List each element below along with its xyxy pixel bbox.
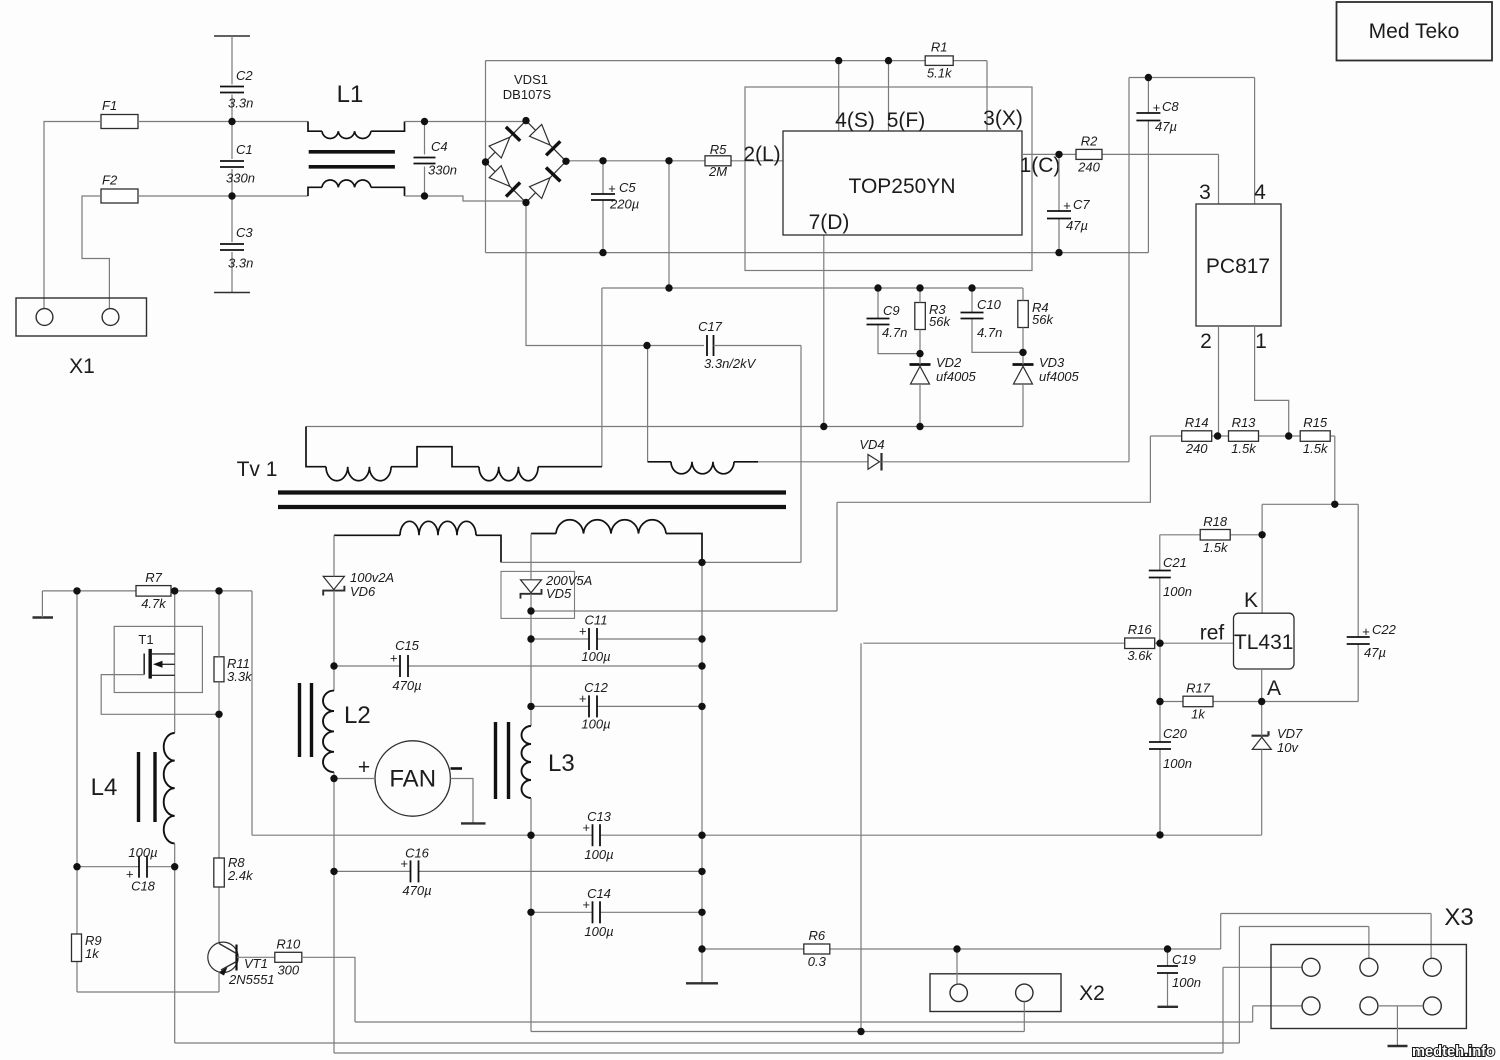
svg-text:L2: L2 xyxy=(344,702,371,729)
svg-text:7(D): 7(D) xyxy=(809,211,850,234)
svg-text:C2: C2 xyxy=(236,68,253,83)
svg-text:L4: L4 xyxy=(91,774,118,801)
wire xyxy=(334,772,1223,1053)
wire X2 pin left xyxy=(956,949,958,984)
capacitor C1 xyxy=(220,142,255,186)
wire xyxy=(1159,643,1161,701)
wire xyxy=(531,705,702,707)
svg-text:470µ: 470µ xyxy=(402,883,431,898)
resistor R7 xyxy=(136,570,171,611)
svg-text:3.3n: 3.3n xyxy=(228,96,253,111)
svg-text:ref: ref xyxy=(1200,622,1225,645)
capacitor C13 xyxy=(582,809,613,862)
svg-text:Med Teko: Med Teko xyxy=(1369,20,1460,43)
wire xyxy=(1160,534,1262,536)
wire xyxy=(77,591,219,992)
wire xyxy=(138,195,308,197)
wire xyxy=(1147,78,1149,253)
IC U3 TL431 xyxy=(1200,589,1294,700)
resistor R8 xyxy=(214,855,254,887)
svg-text:F1: F1 xyxy=(102,98,117,113)
svg-text:240: 240 xyxy=(1185,441,1208,456)
svg-text:100v2A: 100v2A xyxy=(350,570,394,585)
transformer Tv1 bias winding xyxy=(648,346,758,474)
svg-text:300: 300 xyxy=(277,962,299,977)
transistor T1 (MOSFET) xyxy=(114,626,202,692)
wire xyxy=(405,196,527,201)
ground (fan) xyxy=(461,822,486,824)
svg-text:100µ: 100µ xyxy=(584,847,613,862)
fuse F2 xyxy=(101,173,138,204)
wire xyxy=(174,591,176,733)
wire xyxy=(531,610,837,612)
capacitor C4 xyxy=(414,139,457,178)
wire TL431 anode A xyxy=(1261,669,1263,702)
svg-text:medteh.info: medteh.info xyxy=(1412,1043,1495,1060)
wire xyxy=(334,665,702,667)
svg-text:C20: C20 xyxy=(1163,726,1188,741)
svg-text:R7: R7 xyxy=(145,570,162,585)
module box around TOP250YN xyxy=(745,87,1032,271)
svg-text:4.7n: 4.7n xyxy=(977,325,1002,340)
svg-text:TL431: TL431 xyxy=(1234,631,1294,654)
resistor R4 xyxy=(1018,300,1055,328)
wire xyxy=(424,122,426,197)
wire xyxy=(334,870,702,872)
wire xyxy=(972,288,1023,352)
svg-text:330n: 330n xyxy=(226,171,255,186)
resistor R13 xyxy=(1229,415,1259,456)
wire X2 pin right xyxy=(1023,1002,1025,1032)
diode VD2 xyxy=(910,355,977,384)
resistor R17 xyxy=(1183,681,1213,722)
wire xyxy=(702,948,1221,950)
wire xyxy=(1159,702,1161,835)
svg-text:Tv 1: Tv 1 xyxy=(237,458,278,481)
capacitor C22 xyxy=(1347,622,1397,660)
svg-text:VD2: VD2 xyxy=(936,355,962,370)
svg-text:VD7: VD7 xyxy=(1277,726,1303,741)
svg-text:100n: 100n xyxy=(1163,584,1192,599)
svg-text:R10: R10 xyxy=(276,936,301,951)
svg-text:C17: C17 xyxy=(698,319,723,334)
svg-text:3.6k: 3.6k xyxy=(1127,648,1153,663)
svg-text:C9: C9 xyxy=(883,303,900,318)
svg-text:3.3n/2kV: 3.3n/2kV xyxy=(704,356,757,371)
svg-text:VT1: VT1 xyxy=(244,956,268,971)
wire xyxy=(231,196,233,293)
svg-text:240: 240 xyxy=(1077,159,1100,174)
wire xyxy=(138,121,308,123)
svg-text:R15: R15 xyxy=(1303,415,1328,430)
svg-text:C15: C15 xyxy=(395,638,420,653)
svg-text:X2: X2 xyxy=(1079,982,1105,1005)
wire xyxy=(526,203,704,346)
svg-text:2: 2 xyxy=(1200,330,1212,353)
svg-text:1.5k: 1.5k xyxy=(1303,441,1329,456)
svg-text:4(S): 4(S) xyxy=(835,109,875,132)
wire xyxy=(1253,1006,1302,1022)
svg-text:5(F): 5(F) xyxy=(887,109,926,132)
resistor R10 xyxy=(275,936,302,977)
svg-text:47µ: 47µ xyxy=(1364,645,1386,660)
svg-text:R2: R2 xyxy=(1081,133,1098,148)
svg-text:R13: R13 xyxy=(1232,415,1257,430)
svg-text:56k: 56k xyxy=(929,314,951,329)
svg-text:+: + xyxy=(1063,198,1071,213)
svg-text:56k: 56k xyxy=(1032,312,1054,327)
resistor R3 xyxy=(915,302,952,330)
svg-text:R18: R18 xyxy=(1203,514,1228,529)
capacitor C2 xyxy=(220,68,253,111)
svg-text:K: K xyxy=(1244,589,1258,612)
resistor R2 xyxy=(1076,133,1102,174)
IC U1 TOP250YN xyxy=(743,107,1060,235)
wire xyxy=(486,61,988,131)
svg-text:C18: C18 xyxy=(131,879,156,894)
svg-text:100µ: 100µ xyxy=(128,845,157,860)
capacitor C17 xyxy=(698,319,757,371)
ground (X3) xyxy=(1388,1045,1408,1047)
capacitor C21 xyxy=(1149,555,1192,599)
svg-text:R1: R1 xyxy=(931,40,948,55)
svg-text:C14: C14 xyxy=(587,886,611,901)
svg-text:100µ: 100µ xyxy=(581,649,610,664)
svg-text:+: + xyxy=(582,897,590,912)
svg-text:47µ: 47µ xyxy=(1155,119,1177,134)
svg-text:2N5551: 2N5551 xyxy=(228,972,275,987)
svg-text:VDS1: VDS1 xyxy=(514,72,548,87)
transformer Tv1 core xyxy=(278,493,786,508)
wire xyxy=(77,866,175,868)
terminal bar top xyxy=(214,35,250,37)
svg-text:A: A xyxy=(1267,677,1281,700)
svg-text:VD4: VD4 xyxy=(859,437,884,452)
svg-text:C3: C3 xyxy=(236,225,253,240)
transistor VT1 2N5551 xyxy=(208,942,275,987)
wire xyxy=(566,160,783,162)
wire xyxy=(668,161,670,288)
fan motor FAN xyxy=(358,741,462,816)
wire xyxy=(602,288,1023,467)
wire xyxy=(231,122,233,197)
svg-text:VD5: VD5 xyxy=(546,586,572,601)
wire xyxy=(405,121,527,123)
inductor L4 xyxy=(91,733,175,843)
zener VD7 xyxy=(1252,726,1304,755)
svg-text:100n: 100n xyxy=(1172,975,1201,990)
inductor L2 xyxy=(300,683,371,772)
svg-text:+: + xyxy=(390,651,398,666)
resistor R6 xyxy=(804,928,830,969)
wire xyxy=(919,354,921,427)
wire xyxy=(531,798,1024,1032)
svg-text:+: + xyxy=(579,624,587,639)
ground (C19) xyxy=(1158,1006,1179,1008)
wire xyxy=(701,562,703,983)
capacitor C15 xyxy=(390,638,422,693)
svg-text:100µ: 100µ xyxy=(581,717,610,732)
wire xyxy=(231,36,233,122)
svg-text:C4: C4 xyxy=(431,139,448,154)
svg-text:R6: R6 xyxy=(808,928,825,943)
bridge rectifier VDS1 DB107S xyxy=(486,72,567,203)
wire xyxy=(1022,154,1219,204)
wire xyxy=(1357,504,1359,701)
svg-text:4.7k: 4.7k xyxy=(141,596,167,611)
svg-text:1.5k: 1.5k xyxy=(1203,540,1229,555)
svg-text:L3: L3 xyxy=(548,750,575,777)
wire xyxy=(501,561,801,563)
svg-text:T1: T1 xyxy=(138,632,153,647)
svg-text:1.5k: 1.5k xyxy=(1231,441,1257,456)
terminal bar bottom xyxy=(214,292,250,294)
fuse F1 xyxy=(101,98,138,129)
svg-text:C13: C13 xyxy=(587,809,612,824)
svg-text:2.4k: 2.4k xyxy=(227,868,254,883)
svg-text:10v: 10v xyxy=(1277,740,1299,755)
wire xyxy=(42,591,252,835)
wire pin 7(D) xyxy=(823,235,825,427)
capacitor C19 xyxy=(1157,952,1201,990)
wire xyxy=(175,844,1240,1043)
wire PC817 pin 1 xyxy=(1255,326,1289,436)
resistor R15 xyxy=(1300,415,1330,456)
wire xyxy=(1221,914,1431,959)
wire xyxy=(486,61,1149,253)
resistor R5 xyxy=(705,142,731,179)
diode VD4 xyxy=(859,437,884,471)
svg-text:0.3: 0.3 xyxy=(808,954,827,969)
wire xyxy=(1167,949,1169,1007)
capacitor C10 xyxy=(961,297,1003,340)
diode VD5 xyxy=(501,571,592,618)
ground (aux) xyxy=(33,616,54,618)
svg-text:F2: F2 xyxy=(102,173,118,188)
capacitor C11 xyxy=(579,613,611,665)
title box Med Teko xyxy=(1337,2,1493,61)
svg-text:+: + xyxy=(400,856,408,871)
svg-text:1k: 1k xyxy=(1191,707,1206,722)
svg-text:3.3k: 3.3k xyxy=(227,669,253,684)
svg-text:PC817: PC817 xyxy=(1206,255,1270,278)
wire xyxy=(1378,1005,1424,1007)
wire xyxy=(860,643,862,1031)
svg-text:220µ: 220µ xyxy=(609,197,639,212)
svg-text:TOP250YN: TOP250YN xyxy=(849,175,956,198)
resistor R1 xyxy=(925,40,953,81)
capacitor C5 xyxy=(591,180,639,212)
svg-text:+: + xyxy=(358,756,370,779)
wire xyxy=(1058,154,1060,252)
svg-text:47µ: 47µ xyxy=(1066,218,1088,233)
wire xyxy=(531,638,702,640)
wire PC817 pin 2 xyxy=(1218,326,1220,436)
svg-text:2M: 2M xyxy=(708,164,727,179)
resistor R11 xyxy=(214,656,253,684)
wire xyxy=(1022,352,1024,426)
svg-text:4: 4 xyxy=(1254,181,1266,204)
wire xyxy=(863,642,1233,644)
svg-text:+: + xyxy=(582,820,590,835)
connector X2 xyxy=(930,974,1105,1012)
capacitor C20 xyxy=(1149,726,1192,771)
capacitor C12 xyxy=(579,680,611,732)
svg-text:R17: R17 xyxy=(1186,681,1211,696)
wire xyxy=(1022,288,1024,352)
wire xyxy=(218,971,220,992)
svg-text:C5: C5 xyxy=(619,180,636,195)
svg-text:R14: R14 xyxy=(1185,415,1209,430)
diode VD6 xyxy=(323,570,394,599)
wire xyxy=(1396,1006,1398,1046)
svg-text:1(C): 1(C) xyxy=(1020,154,1061,177)
wire pin 5(F) xyxy=(888,61,890,131)
wire xyxy=(334,778,375,780)
wire xyxy=(44,122,101,309)
svg-text:FAN: FAN xyxy=(389,766,436,793)
capacitor C18 xyxy=(126,845,158,894)
resistor R16 xyxy=(1125,622,1155,663)
svg-text:C10: C10 xyxy=(977,297,1002,312)
svg-text:1k: 1k xyxy=(85,946,100,961)
diode VD3 xyxy=(1013,355,1080,384)
wire xyxy=(531,911,702,913)
resistor R18 xyxy=(1200,514,1230,555)
svg-text:4.7n: 4.7n xyxy=(882,325,907,340)
svg-text:VD6: VD6 xyxy=(350,584,376,599)
svg-text:L1: L1 xyxy=(337,81,364,108)
svg-text:C12: C12 xyxy=(584,680,609,695)
svg-text:DB107S: DB107S xyxy=(503,87,552,102)
wire xyxy=(302,957,1253,1022)
svg-text:100µ: 100µ xyxy=(584,924,613,939)
svg-text:C22: C22 xyxy=(1372,622,1397,637)
capacitor C3 xyxy=(220,225,253,271)
transformer Tv1 primary winding xyxy=(237,427,602,482)
wire TL431 cathode K xyxy=(1261,504,1263,613)
svg-text:C8: C8 xyxy=(1162,99,1179,114)
wire xyxy=(878,288,920,354)
svg-text:X1: X1 xyxy=(69,355,95,378)
wire xyxy=(1261,702,1263,835)
wire xyxy=(530,534,532,727)
connector X1 xyxy=(16,298,147,378)
wire xyxy=(237,956,275,958)
optocoupler U2 PC817 xyxy=(1196,181,1281,353)
wire T1 gate xyxy=(101,675,219,715)
capacitor C16 xyxy=(400,846,431,899)
wire xyxy=(1159,535,1161,643)
transformer Tv1 secondary winding 2 xyxy=(531,520,702,563)
wire xyxy=(919,288,921,354)
wire xyxy=(758,461,868,463)
svg-text:+: + xyxy=(608,181,616,196)
svg-text:+: + xyxy=(1153,100,1161,115)
wire xyxy=(252,834,1262,836)
capacitor C7 xyxy=(1047,197,1090,233)
wire xyxy=(333,535,335,690)
inductor L3 xyxy=(496,722,575,799)
svg-text:330n: 330n xyxy=(428,163,457,178)
inductor L1 xyxy=(308,81,405,196)
svg-text:100n: 100n xyxy=(1163,756,1192,771)
wire pin 4(S) xyxy=(838,61,840,131)
transformer Tv1 secondary winding 1 xyxy=(334,521,501,562)
svg-text:1: 1 xyxy=(1255,330,1267,353)
wire xyxy=(306,426,1023,428)
svg-text:C19: C19 xyxy=(1172,952,1196,967)
svg-text:+: + xyxy=(1362,624,1370,639)
capacitor C9 xyxy=(867,303,908,340)
svg-text:+: + xyxy=(579,691,587,706)
wire xyxy=(218,591,220,944)
svg-text:C1: C1 xyxy=(236,142,253,157)
svg-text:C16: C16 xyxy=(405,846,430,861)
svg-text:R5: R5 xyxy=(710,142,727,157)
wire xyxy=(450,779,473,824)
wire xyxy=(602,161,604,253)
svg-text:3: 3 xyxy=(1199,181,1211,204)
svg-text:2(L): 2(L) xyxy=(743,143,780,166)
wire xyxy=(1223,967,1302,1053)
wire xyxy=(714,346,802,563)
connector X3 xyxy=(1271,904,1474,1029)
svg-text:C7: C7 xyxy=(1073,197,1090,212)
svg-text:5.1k: 5.1k xyxy=(927,66,953,81)
svg-text:uf4005: uf4005 xyxy=(936,369,977,384)
svg-text:3.3n: 3.3n xyxy=(228,256,253,271)
resistor R14 xyxy=(1182,415,1212,456)
wire xyxy=(1150,435,1334,437)
wire xyxy=(1128,78,1130,462)
capacitor C8 xyxy=(1136,99,1179,134)
svg-text:470µ: 470µ xyxy=(392,678,421,693)
capacitor C14 xyxy=(582,886,613,939)
svg-text:R16: R16 xyxy=(1128,622,1153,637)
svg-text:C11: C11 xyxy=(585,613,608,628)
svg-text:C21: C21 xyxy=(1163,555,1187,570)
wire xyxy=(1262,436,1358,504)
wire xyxy=(1239,927,1369,1044)
wire xyxy=(882,461,1130,463)
svg-text:uf4005: uf4005 xyxy=(1039,369,1080,384)
svg-text:X3: X3 xyxy=(1444,904,1473,931)
wire xyxy=(1160,701,1358,703)
ground (output common) xyxy=(686,982,718,984)
wire xyxy=(837,436,1150,611)
wire xyxy=(1129,78,1255,205)
svg-text:3(X): 3(X) xyxy=(983,107,1023,130)
resistor R9 xyxy=(72,933,102,962)
svg-text:VD3: VD3 xyxy=(1039,355,1065,370)
wire xyxy=(82,196,109,309)
